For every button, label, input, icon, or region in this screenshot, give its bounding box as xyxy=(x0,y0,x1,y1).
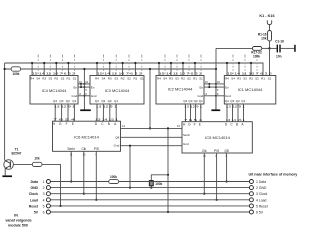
svg-text:7 6 5 4: 7 6 5 4 xyxy=(184,119,203,122)
svg-text:Q1: Q1 xyxy=(199,99,203,103)
svg-text:Gnd: Gnd xyxy=(114,144,120,148)
transistor T1 BC547 xyxy=(4,148,22,176)
wires: IC1 Q outputs down to IC5 D C B A xyxy=(227,104,244,122)
svg-text:E: E xyxy=(72,122,74,126)
svg-text:5 Reset: 5 Reset xyxy=(256,204,268,208)
svg-text:6 5V: 6 5V xyxy=(256,211,264,215)
svg-text:vanaf volgende: vanaf volgende xyxy=(5,219,31,223)
svg-text:Q2: Q2 xyxy=(66,99,70,103)
wire: Vdd link IC4-IC3 xyxy=(78,83,90,85)
svg-text:Reset: Reset xyxy=(29,204,39,208)
capacitor C1-16 10n xyxy=(275,40,294,59)
node: key network junction xyxy=(268,47,276,49)
wire: Gnd link IC6-IC5 xyxy=(121,145,183,147)
svg-text:S1: S1 xyxy=(268,77,272,81)
svg-text:GND: GND xyxy=(30,186,38,190)
svg-text:R4: R4 xyxy=(95,77,99,81)
IC2 output labels Q4 Q3 Q2 Q1 xyxy=(183,99,203,103)
wire: En link IC2-IC1 xyxy=(204,84,224,88)
wire: Vdd link IC2-IC1 xyxy=(204,83,224,85)
svg-text:15 14 11 10 7 6 3 2: 15 14 11 10 7 6 3 2 xyxy=(97,71,143,75)
svg-text:Q8: Q8 xyxy=(115,135,119,139)
svg-text:14: 14 xyxy=(122,124,125,128)
IC3 output labels Q4 Q3 Q2 Q1 xyxy=(95,99,119,103)
svg-text:3: 3 xyxy=(43,192,45,196)
svg-text:Gnd: Gnd xyxy=(183,142,189,146)
bus row GND xyxy=(51,187,250,189)
pin labels En/Gnd IC3 left edge xyxy=(91,85,97,98)
svg-text:IC3 MC14044: IC3 MC14044 xyxy=(105,88,130,93)
wire: Gnd link IC2-IC1 xyxy=(204,95,224,97)
svg-text:BC547: BC547 xyxy=(12,151,22,155)
svg-text:Gnd: Gnd xyxy=(198,94,204,98)
pin number 14 (IC6) xyxy=(122,124,125,128)
svg-text:Q4: Q4 xyxy=(95,99,99,103)
IC5 top pin numbers xyxy=(184,119,246,122)
bus row Load xyxy=(51,199,250,201)
svg-text:Gnd: Gnd xyxy=(72,94,78,98)
IC4 MC14044 xyxy=(30,76,78,105)
svg-text:R2: R2 xyxy=(54,77,58,81)
IC5 left pin labels SerIn / Gnd xyxy=(183,133,191,146)
svg-text:SerIn: SerIn xyxy=(183,133,191,137)
svg-text:Q4: Q4 xyxy=(225,99,229,103)
svg-text:P/S: P/S xyxy=(214,149,219,153)
svg-text:5V: 5V xyxy=(34,211,39,215)
pin numbers IC3 Q xyxy=(96,105,118,108)
svg-text:S2: S2 xyxy=(187,77,191,81)
resistor 100k (T1 collector to En line B) xyxy=(4,67,25,71)
IC5 bottom pin labels Clk P/S Q8 xyxy=(202,149,229,153)
IC2 S-input dashed key lines xyxy=(165,55,201,76)
svg-text:IC4 MC14044: IC4 MC14044 xyxy=(42,88,67,93)
IC5 bottom pin numbers xyxy=(203,155,227,158)
svg-text:S3: S3 xyxy=(243,77,247,81)
ground bar (IC2/IC1) xyxy=(211,109,220,111)
svg-text:S1: S1 xyxy=(199,77,203,81)
svg-text:2: 2 xyxy=(43,186,45,190)
svg-text:R4: R4 xyxy=(225,77,229,81)
svg-text:S4: S4 xyxy=(36,77,40,81)
svg-text:15 14 11 10 7 6 3 2: 15 14 11 10 7 6 3 2 xyxy=(32,71,76,75)
svg-text:Q3: Q3 xyxy=(230,99,234,103)
bus row Clock xyxy=(51,193,250,195)
wire: key line into IC1 pin S1 xyxy=(269,48,271,75)
ground stub right of C1-16 xyxy=(294,45,296,52)
svg-text:15: 15 xyxy=(177,124,180,128)
pin number 15 (IC5) xyxy=(177,124,180,128)
bus row 5V xyxy=(51,211,250,213)
svg-text:Clk: Clk xyxy=(81,147,86,151)
connector IN pin 2 GND xyxy=(30,186,50,191)
svg-text:S3: S3 xyxy=(114,77,118,81)
label UIT naar interface of memory xyxy=(249,172,298,176)
IC3 top pin labels xyxy=(95,77,144,81)
svg-text:Q1: Q1 xyxy=(72,99,76,103)
wire: En link IC4-IC3 xyxy=(78,84,90,88)
IC4 output labels Q4 Q3 Q2 Q1 xyxy=(53,99,77,103)
pin numbers gap IC4-IC3 xyxy=(79,81,89,96)
connector UIT pin 6 5V xyxy=(249,210,263,215)
svg-text:15 14 11 10 7 6 3 2: 15 14 11 10 7 6 3 2 xyxy=(227,71,273,75)
svg-text:6: 6 xyxy=(43,211,45,215)
svg-text:F: F xyxy=(66,122,68,126)
svg-text:R1: R1 xyxy=(193,77,197,81)
svg-text:S3: S3 xyxy=(175,77,179,81)
svg-text:S1: S1 xyxy=(140,77,144,81)
IC4 R-input stubs to R-bus (pins R4 R3 R2 R1) xyxy=(31,62,70,76)
wire: En drop x150 line B to register load line xyxy=(149,68,151,130)
svg-text:10k: 10k xyxy=(261,36,267,40)
IC6 top pin numbers xyxy=(53,118,119,121)
IC2 R-input stubs to R-bus xyxy=(158,62,196,76)
svg-text:Q3: Q3 xyxy=(188,99,192,103)
svg-text:module 500: module 500 xyxy=(8,224,28,228)
svg-text:Q3: Q3 xyxy=(59,99,63,103)
wire: strobe drop x84.4 from line B to gnd bar xyxy=(83,68,85,110)
IC5 MC14014 xyxy=(182,122,252,153)
ground (T1 emitter) xyxy=(2,175,12,177)
IC2 top pin numbers xyxy=(159,71,203,75)
svg-text:15 14 11 10 7 6 3 2: 15 14 11 10 7 6 3 2 xyxy=(159,71,203,75)
svg-text:4 Load: 4 Load xyxy=(256,198,266,202)
wire: branch to 100k pulldown xyxy=(151,175,168,181)
connector UIT pin 2 GND xyxy=(249,186,267,191)
node R-bus: horizontal line A with corner into IC1 pin R1 xyxy=(5,63,263,76)
svg-text:IC5 MC14014: IC5 MC14014 xyxy=(205,135,230,140)
IC4 top pin labels R4 S4 R3 S3 R2 S2 R1 S1 xyxy=(30,77,76,81)
svg-text:En: En xyxy=(91,85,95,89)
IC3 R-input stubs to R-bus xyxy=(96,62,137,76)
IC2 top pin labels xyxy=(157,77,203,81)
IC6 MC14014 xyxy=(53,121,121,151)
label IN vanaf volgende module 500 xyxy=(5,213,31,227)
svg-text:B: B xyxy=(108,122,110,126)
svg-text:7 6 5 4: 7 6 5 4 xyxy=(53,118,77,121)
svg-text:E: E xyxy=(199,122,201,126)
svg-text:R3: R3 xyxy=(42,77,46,81)
svg-text:13 12 9 1: 13 12 9 1 xyxy=(54,105,76,108)
ground bar (IC4/IC3) xyxy=(80,109,91,111)
pin numbers IC4 Q xyxy=(54,105,76,108)
bus row Reset xyxy=(51,205,250,207)
svg-text:Load: Load xyxy=(30,198,38,202)
svg-text:P/S: P/S xyxy=(94,147,99,151)
svg-text:R2: R2 xyxy=(249,77,253,81)
resistor R17-32 100k xyxy=(251,47,269,59)
svg-text:R1: R1 xyxy=(133,77,137,81)
svg-text:Uit naar interface of memory: Uit naar interface of memory xyxy=(249,172,298,176)
svg-text:Q1: Q1 xyxy=(114,99,118,103)
svg-text:S4: S4 xyxy=(231,77,235,81)
connector UIT pin 1 Data xyxy=(249,180,266,185)
svg-text:En: En xyxy=(200,85,204,89)
svg-text:1 Data: 1 Data xyxy=(256,180,266,184)
svg-text:R2: R2 xyxy=(121,77,125,81)
svg-text:Q4: Q4 xyxy=(53,99,57,103)
svg-text:SerIn: SerIn xyxy=(67,147,75,151)
svg-text:13 12 9 1: 13 12 9 1 xyxy=(96,105,118,108)
IC6 input labels H G F E D C B A xyxy=(53,122,117,126)
svg-text:4: 4 xyxy=(43,198,45,202)
svg-text:R1: R1 xyxy=(66,77,70,81)
svg-text:En: En xyxy=(74,85,78,89)
svg-text:Clk: Clk xyxy=(202,149,207,153)
wire: IC5 P/S to Load row xyxy=(216,153,218,201)
svg-text:F: F xyxy=(194,122,196,126)
svg-text:R2: R2 xyxy=(181,77,185,81)
wire: gnd drop x130 to GND row xyxy=(129,146,131,189)
connector UIT pin 3 Clock xyxy=(249,192,267,197)
value label 100k xyxy=(12,72,19,76)
svg-text:R4: R4 xyxy=(157,77,161,81)
IC6 bottom pin labels SerIn Clk P/S xyxy=(67,147,98,151)
svg-text:3 Clock: 3 Clock xyxy=(256,192,268,196)
wire: T1 base to 10k xyxy=(13,163,32,165)
svg-text:IN: IN xyxy=(14,213,18,217)
IC1 MC14044 xyxy=(224,76,275,105)
node En-line B: horizontal from 100k to x216 xyxy=(24,68,216,70)
svg-text:100k: 100k xyxy=(155,182,162,186)
svg-text:S2: S2 xyxy=(255,77,259,81)
svg-text:Data: Data xyxy=(31,180,38,184)
svg-text:Clock: Clock xyxy=(29,192,38,196)
wire: IC6 Clk to Clock row xyxy=(83,151,85,194)
svg-text:R3: R3 xyxy=(237,77,241,81)
svg-text:C1-16: C1-16 xyxy=(275,40,284,44)
svg-text:100k: 100k xyxy=(12,72,19,76)
connector IN pin 3 Clock xyxy=(29,192,51,197)
IC1 output labels Q4 Q3 Q2 Q1 xyxy=(225,99,246,103)
svg-text:Q2: Q2 xyxy=(236,99,240,103)
wire: IC6 P/S to Load row xyxy=(95,151,97,201)
svg-text:S1: S1 xyxy=(73,77,77,81)
IC3 top pin numbers xyxy=(97,71,143,75)
resistor 100k (load line pulldown) xyxy=(149,181,162,189)
IC1 top pin numbers xyxy=(227,71,273,75)
svg-text:IC2 MC14044: IC2 MC14044 xyxy=(168,86,193,91)
IC4 top pin numbers xyxy=(32,71,76,75)
svg-text:Gnd: Gnd xyxy=(91,94,97,98)
svg-text:S3: S3 xyxy=(48,77,52,81)
wire: IC6 Q8 to IC5 SerIn xyxy=(121,136,183,138)
svg-text:R3: R3 xyxy=(169,77,173,81)
IC2 MC14044 xyxy=(156,76,204,105)
wire: IC6 SerIn to Data row xyxy=(70,151,72,182)
connector UIT pin 5 Reset xyxy=(249,204,267,209)
IC3 MC14044 xyxy=(90,76,144,105)
bus row Data xyxy=(51,181,250,183)
svg-text:En: En xyxy=(225,85,229,89)
resistor 10k (T1 base) xyxy=(32,157,42,167)
svg-text:IC6 MC14014: IC6 MC14014 xyxy=(74,134,99,139)
svg-text:Q2: Q2 xyxy=(194,99,198,103)
svg-text:10k: 10k xyxy=(34,157,40,161)
svg-text:Q8: Q8 xyxy=(224,149,228,153)
svg-text:R1: R1 xyxy=(261,77,265,81)
IC1 R-input stubs to R-bus xyxy=(226,62,252,76)
wire: load-line drop x168 to 5V row xyxy=(167,128,169,213)
svg-text:B: B xyxy=(236,122,238,126)
pin labels En/Gnd IC1 left edge xyxy=(225,85,231,98)
wire: strobe drop x215.9 En to gnd bar xyxy=(215,69,217,110)
svg-text:S4: S4 xyxy=(102,77,106,81)
IC3 S-input dashed key lines xyxy=(103,55,141,76)
svg-text:R3: R3 xyxy=(108,77,112,81)
svg-text:S2: S2 xyxy=(61,77,65,81)
svg-text:Q4: Q4 xyxy=(183,99,187,103)
connector IN pin 5 Reset xyxy=(29,204,51,209)
wire: 10k to Reset row via corner x60.5 xyxy=(42,164,62,207)
resistor 100k (Data row series) xyxy=(109,175,119,184)
pin labels En/Gnd IC4 right edge xyxy=(72,85,78,98)
wires: IC4 Q outputs down to IC6 H G F E xyxy=(55,104,74,121)
svg-text:Q1: Q1 xyxy=(241,99,245,103)
svg-text:13 14 15 1: 13 14 15 1 xyxy=(226,119,246,122)
svg-text:5: 5 xyxy=(217,89,219,92)
svg-text:Gnd: Gnd xyxy=(225,94,231,98)
wire: left vertical from R-bus down to T1 collector xyxy=(4,63,6,160)
wire: IC5 Q8 to Data row (out) xyxy=(226,153,228,183)
connector UIT pin 4 Load xyxy=(249,198,266,203)
IC4 S-input dashed key lines (pins S4 S3 S2 S1) xyxy=(38,55,74,76)
connector IN pin 4 Load xyxy=(30,198,51,203)
svg-text:Q2: Q2 xyxy=(108,99,112,103)
svg-text:10n: 10n xyxy=(276,54,282,58)
svg-text:2 GND: 2 GND xyxy=(256,186,267,190)
wires: IC3 Q outputs down to IC6 D C B A xyxy=(97,104,116,121)
svg-text:5: 5 xyxy=(85,89,87,92)
IC6 right pin labels Q8 / Gnd xyxy=(114,135,120,147)
svg-text:S2: S2 xyxy=(127,77,131,81)
svg-text:S4: S4 xyxy=(163,77,167,81)
IC6 bottom pin numbers xyxy=(70,153,98,156)
connector IN pin 6 5V xyxy=(34,210,51,215)
pin numbers gap IC2-IC1 xyxy=(205,81,220,96)
wire: IC5 Clk to Clock row xyxy=(203,153,205,195)
pin numbers IC1 Q xyxy=(226,105,246,108)
wire: P/S load line IC6 pin14 to IC5 pin15 xyxy=(121,127,183,129)
svg-text:Q3: Q3 xyxy=(101,99,105,103)
svg-text:R4: R4 xyxy=(30,77,34,81)
wire: R17-32 horizontal run y48.4 xyxy=(216,47,252,49)
svg-text:1: 1 xyxy=(43,180,45,184)
pin labels En/Gnd IC2 right edge xyxy=(198,85,204,98)
connector K1 - K16 xyxy=(259,14,274,31)
svg-text:IC1 MC14044: IC1 MC14044 xyxy=(238,87,263,92)
IC1 top pin labels xyxy=(225,77,272,81)
connector IN pin 1 Data xyxy=(31,180,51,185)
svg-text:100k: 100k xyxy=(110,175,117,179)
svg-text:13 12 9 1: 13 12 9 1 xyxy=(226,105,246,108)
pin numbers IC2 Q xyxy=(184,105,203,108)
wire: strobe vertical x216 from R17-32 down to ground bar xyxy=(215,48,217,109)
wire: Gnd link IC4-IC3 xyxy=(78,95,90,97)
resistor R1-16 10k xyxy=(258,31,272,49)
svg-text:10: 10 xyxy=(83,153,86,156)
svg-text:13 14 15 1: 13 14 15 1 xyxy=(95,118,119,121)
IC5 input labels H G F E D C B A xyxy=(183,122,244,126)
svg-text:13 12 9 1: 13 12 9 1 xyxy=(184,105,203,108)
svg-text:K1 - K16: K1 - K16 xyxy=(259,14,274,18)
IC1 S-input dashed key lines xyxy=(233,55,257,76)
svg-text:5: 5 xyxy=(43,204,45,208)
wires: IC2 Q outputs down to IC5 H G F E xyxy=(185,104,200,122)
